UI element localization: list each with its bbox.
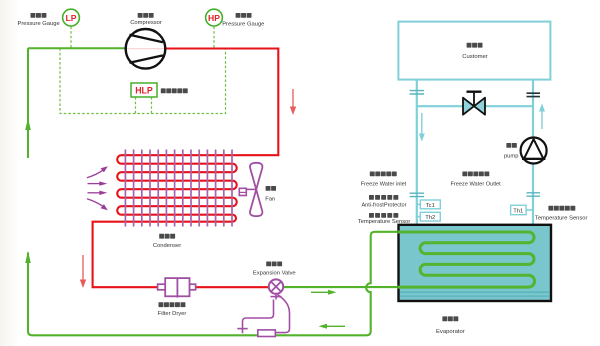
svg-text:Pressure Gauge: Pressure Gauge <box>222 22 264 28</box>
txv equalizer line <box>237 294 289 333</box>
svg-text:HP: HP <box>208 13 220 23</box>
HLP pressure switch <box>131 83 157 97</box>
flange outlet top <box>527 93 541 96</box>
wire: green suction riser upper segment <box>27 48 29 158</box>
svg-text:LP: LP <box>66 13 77 23</box>
compressor <box>126 29 166 69</box>
svg-text:Filter Dryer: Filter Dryer <box>158 311 187 317</box>
arrow up outlet pipe <box>539 104 545 130</box>
air flow arrows <box>87 166 108 210</box>
wire: chilled water outlet pipe <box>532 80 534 226</box>
svg-text:Tc1: Tc1 <box>426 203 435 209</box>
flange inlet top <box>410 91 425 94</box>
label 冷冻水出口 + Freeze Water Outlet <box>451 172 502 188</box>
txv capillary to bulb <box>275 295 289 333</box>
expansion valve <box>269 279 283 293</box>
label 风扇 + Fan <box>265 186 276 203</box>
fan <box>239 163 262 216</box>
label 膨胀阀 + Expansion Valve <box>253 262 296 277</box>
dashed control loop to HLP switch <box>60 48 226 113</box>
label 压缩机 + Compressor <box>130 13 162 26</box>
svg-text:HLP: HLP <box>135 86 153 96</box>
svg-text:Condenser: Condenser <box>153 243 181 249</box>
sensor Th2 <box>417 212 441 221</box>
sensor bulb <box>258 330 276 337</box>
dashed drop HLP right <box>151 97 153 114</box>
label 冷冻水入口 + Freeze Water inlet <box>361 172 407 188</box>
label 干燥过滤器 + Filter Dryer <box>158 302 187 317</box>
wire: chilled water bypass pipe <box>417 105 533 107</box>
svg-text:Pressure Gauge: Pressure Gauge <box>17 21 59 27</box>
water valve <box>463 92 485 115</box>
label 压力表 + Pressure Gauge (left) <box>17 13 59 27</box>
arrow down on liquid pipe <box>80 255 86 288</box>
svg-text:pump: pump <box>504 154 519 160</box>
condenser fins <box>125 150 232 227</box>
label 高低压开关 <box>161 88 188 93</box>
gauge HP <box>206 9 223 26</box>
customer box <box>398 22 550 80</box>
wire: suction return run (evaporator out, bottom line, riser lower segment) <box>28 232 400 335</box>
flange outlet bottom <box>527 193 541 196</box>
label 冷凝器 + Condenser <box>153 234 181 249</box>
pump <box>521 138 547 164</box>
filter dryer <box>158 278 196 298</box>
label 防冻保护器 + Anti-frostProtector <box>361 195 406 208</box>
arrow up on suction riser <box>25 118 31 130</box>
evaporator coil <box>398 232 535 287</box>
dashed control line from HP gauge <box>213 27 215 48</box>
label 压力表 + Pressure Gauge (right) <box>222 13 264 28</box>
label 温度传感器 + Temperature Sensor (right) <box>535 206 588 222</box>
water level lines <box>400 292 550 296</box>
sensor Tc1 <box>417 200 441 209</box>
flange inlet bottom <box>410 193 425 196</box>
svg-text:Fan: Fan <box>265 197 275 203</box>
svg-text:Customer: Customer <box>462 54 488 60</box>
arrow left on suction line <box>319 324 346 329</box>
svg-text:Th1: Th1 <box>513 208 523 214</box>
arrow down on discharge pipe <box>290 89 296 115</box>
evaporator tank <box>399 225 552 301</box>
dashed control line from LP gauge <box>60 27 226 114</box>
wire: green suction line to compressor <box>28 47 126 49</box>
svg-text:Freeze Water Outlet: Freeze Water Outlet <box>451 181 502 187</box>
svg-text:Th2: Th2 <box>425 215 435 221</box>
wire: chilled water inlet pipe <box>416 80 418 226</box>
svg-text:Anti-frostProtector: Anti-frostProtector <box>361 202 406 208</box>
label 温度传感器 + Temperature Sensor (left) <box>358 213 411 225</box>
dashed drop HLP left <box>135 97 137 114</box>
wire: red discharge line compressor to condenser <box>93 49 279 288</box>
svg-text:Compressor: Compressor <box>130 20 162 26</box>
arrow down inlet pipe <box>419 113 425 142</box>
label 蒸发器 + Evaporator <box>436 316 465 334</box>
arrow right into evaporator <box>311 290 337 295</box>
arrow up on lower riser <box>25 251 31 263</box>
wire: green liquid line valve to evaporator <box>283 286 399 288</box>
sensor Th1 <box>511 205 533 214</box>
svg-text:Evaporator: Evaporator <box>436 329 465 335</box>
label 水泵 + pump <box>504 143 519 160</box>
svg-text:Freeze Water inlet: Freeze Water inlet <box>361 181 407 187</box>
svg-text:Temperature Sensor: Temperature Sensor <box>535 216 588 222</box>
gauge LP <box>63 9 80 26</box>
svg-text:Expansion Valve: Expansion Valve <box>253 271 296 277</box>
